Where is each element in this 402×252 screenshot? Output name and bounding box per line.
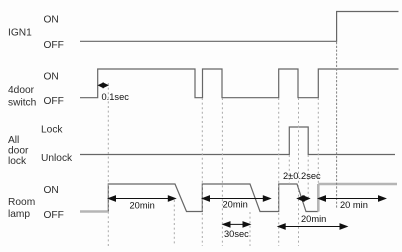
arrow 30sec: [223, 222, 250, 227]
dashed guide x=250 (lamp fade 2): [249, 212, 251, 246]
svg-text:IGN1: IGN1: [8, 28, 32, 39]
signal label Room lamp: [8, 185, 64, 221]
arrow 2±0.2sec interval (small double arrow): [298, 196, 310, 202]
signal label All door lock: [8, 125, 73, 168]
0.1sec label: [102, 92, 130, 102]
svg-text:lamp: lamp: [8, 209, 30, 220]
20min label #1: [130, 201, 155, 211]
dashed guide x=202 (door open 2): [201, 98, 203, 246]
arrow 20min #5 (bottom): [278, 224, 347, 229]
dashed guide x=108 (0.1sec): [107, 83, 109, 247]
svg-text:Room: Room: [8, 197, 35, 208]
svg-text:ON: ON: [44, 72, 59, 83]
svg-text:Unlock: Unlock: [41, 153, 73, 164]
svg-text:OFF: OFF: [44, 210, 64, 221]
svg-text:20min: 20min: [223, 200, 248, 210]
0.1sec marker arrow: [99, 83, 108, 88]
dashed guide x=278.7 (door open 3): [278, 98, 280, 246]
20min label #4: [340, 200, 368, 210]
arrow 20min #1 (lamp on 1): [109, 196, 176, 201]
svg-text:Lock: Lock: [41, 125, 63, 136]
svg-text:OFF: OFF: [44, 40, 64, 51]
All door lock waveform: [80, 127, 395, 155]
svg-text:ON: ON: [44, 185, 59, 196]
20min label #5: [301, 214, 326, 224]
dashed guide x=298.5 (door close 3): [298, 98, 300, 246]
2±0.2sec label: [283, 171, 321, 181]
svg-text:switch: switch: [8, 98, 36, 109]
svg-text:20 min: 20 min: [340, 200, 368, 210]
svg-text:2±0.2sec: 2±0.2sec: [283, 171, 321, 181]
svg-text:4door: 4door: [8, 85, 35, 96]
IGN1 waveform: [80, 12, 399, 42]
dashed guide x=222 (door close 2): [221, 98, 223, 246]
4door switch waveform: [80, 69, 399, 98]
Room lamp final ON segment (gray thick): [318, 184, 397, 212]
svg-text:OFF: OFF: [44, 96, 64, 107]
svg-text:20min: 20min: [301, 214, 326, 224]
signal label IGN1: [8, 15, 64, 52]
svg-text:All: All: [8, 135, 19, 146]
svg-text:ON: ON: [44, 15, 59, 26]
Room lamp initial OFF segment (gray thick): [80, 210, 108, 213]
svg-text:door: door: [8, 146, 29, 157]
20min label #2: [223, 200, 248, 210]
signal label 4door switch: [8, 72, 64, 109]
dashed guide x=308 (lock fall): [307, 155, 309, 198]
30sec label: [224, 229, 249, 239]
svg-text:20min: 20min: [130, 201, 155, 211]
svg-text:lock: lock: [8, 156, 27, 167]
svg-text:30sec: 30sec: [224, 229, 249, 239]
dashed guide x=289 (lock rise): [288, 155, 290, 184]
dashed guide x=336.6 (IGN on): [336, 42, 338, 208]
arrow 20min #2 (lamp on 2): [203, 196, 271, 201]
dashed guide x=318 (door open 4): [317, 98, 319, 184]
arrow 20min #4 (right): [319, 196, 386, 201]
dashed guide x=174 (lamp fade 1): [173, 200, 175, 246]
svg-text:0.1sec: 0.1sec: [102, 92, 130, 102]
Room lamp waveform (dark): [108, 184, 318, 212]
